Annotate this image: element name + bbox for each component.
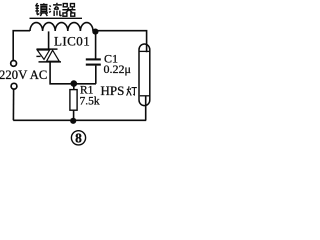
wire top rail to right edge and down to lamp	[96, 31, 147, 53]
figure number circled 8	[71, 131, 85, 145]
glyph 灯 (lamp)	[127, 86, 137, 95]
junction node at coil/cap/rail	[92, 29, 98, 35]
wire R1 bottom lead	[73, 110, 75, 120]
glyph 流	[49, 3, 62, 16]
junction node R1/bottom rail	[70, 118, 76, 124]
underline of 镇流器	[30, 17, 83, 19]
terminal upper (220V AC)	[11, 61, 17, 67]
wire from lower terminal down	[12, 89, 14, 120]
wire capacitor branch upper	[95, 33, 97, 59]
wire lamp bottom lead	[145, 96, 147, 121]
terminal lower (220V AC)	[11, 83, 17, 89]
label 镇流器 (ballast) hand-drawn glyphs	[35, 3, 75, 16]
wire diac top lead	[48, 31, 50, 49]
svg-text:7.5k: 7.5k	[80, 96, 100, 108]
diac LIC01 symbol	[36, 49, 61, 62]
HPS lamp tube	[139, 44, 150, 106]
wire left vertical + top horizontal to coil	[13, 31, 30, 61]
wire R1 top lead	[73, 84, 75, 90]
glyph 器	[62, 4, 75, 17]
wire capacitor branch lower	[95, 66, 97, 84]
wire bottom rail	[13, 119, 146, 121]
inductor L (ballast coil)	[30, 23, 93, 31]
svg-text:220V AC: 220V AC	[0, 68, 47, 82]
wire coil end to node	[93, 30, 96, 32]
svg-text:8: 8	[75, 130, 82, 145]
glyph 镇	[35, 3, 48, 16]
svg-text:LIC01: LIC01	[54, 34, 90, 49]
wire diac bottom lead down and node horizontal	[50, 62, 96, 84]
capacitor C1 plates	[86, 59, 101, 64]
svg-text:0.22μ: 0.22μ	[104, 62, 131, 76]
resistor R1 box	[70, 90, 77, 111]
junction node diac/cap/R1	[71, 80, 78, 87]
svg-text:HPS: HPS	[101, 83, 125, 98]
